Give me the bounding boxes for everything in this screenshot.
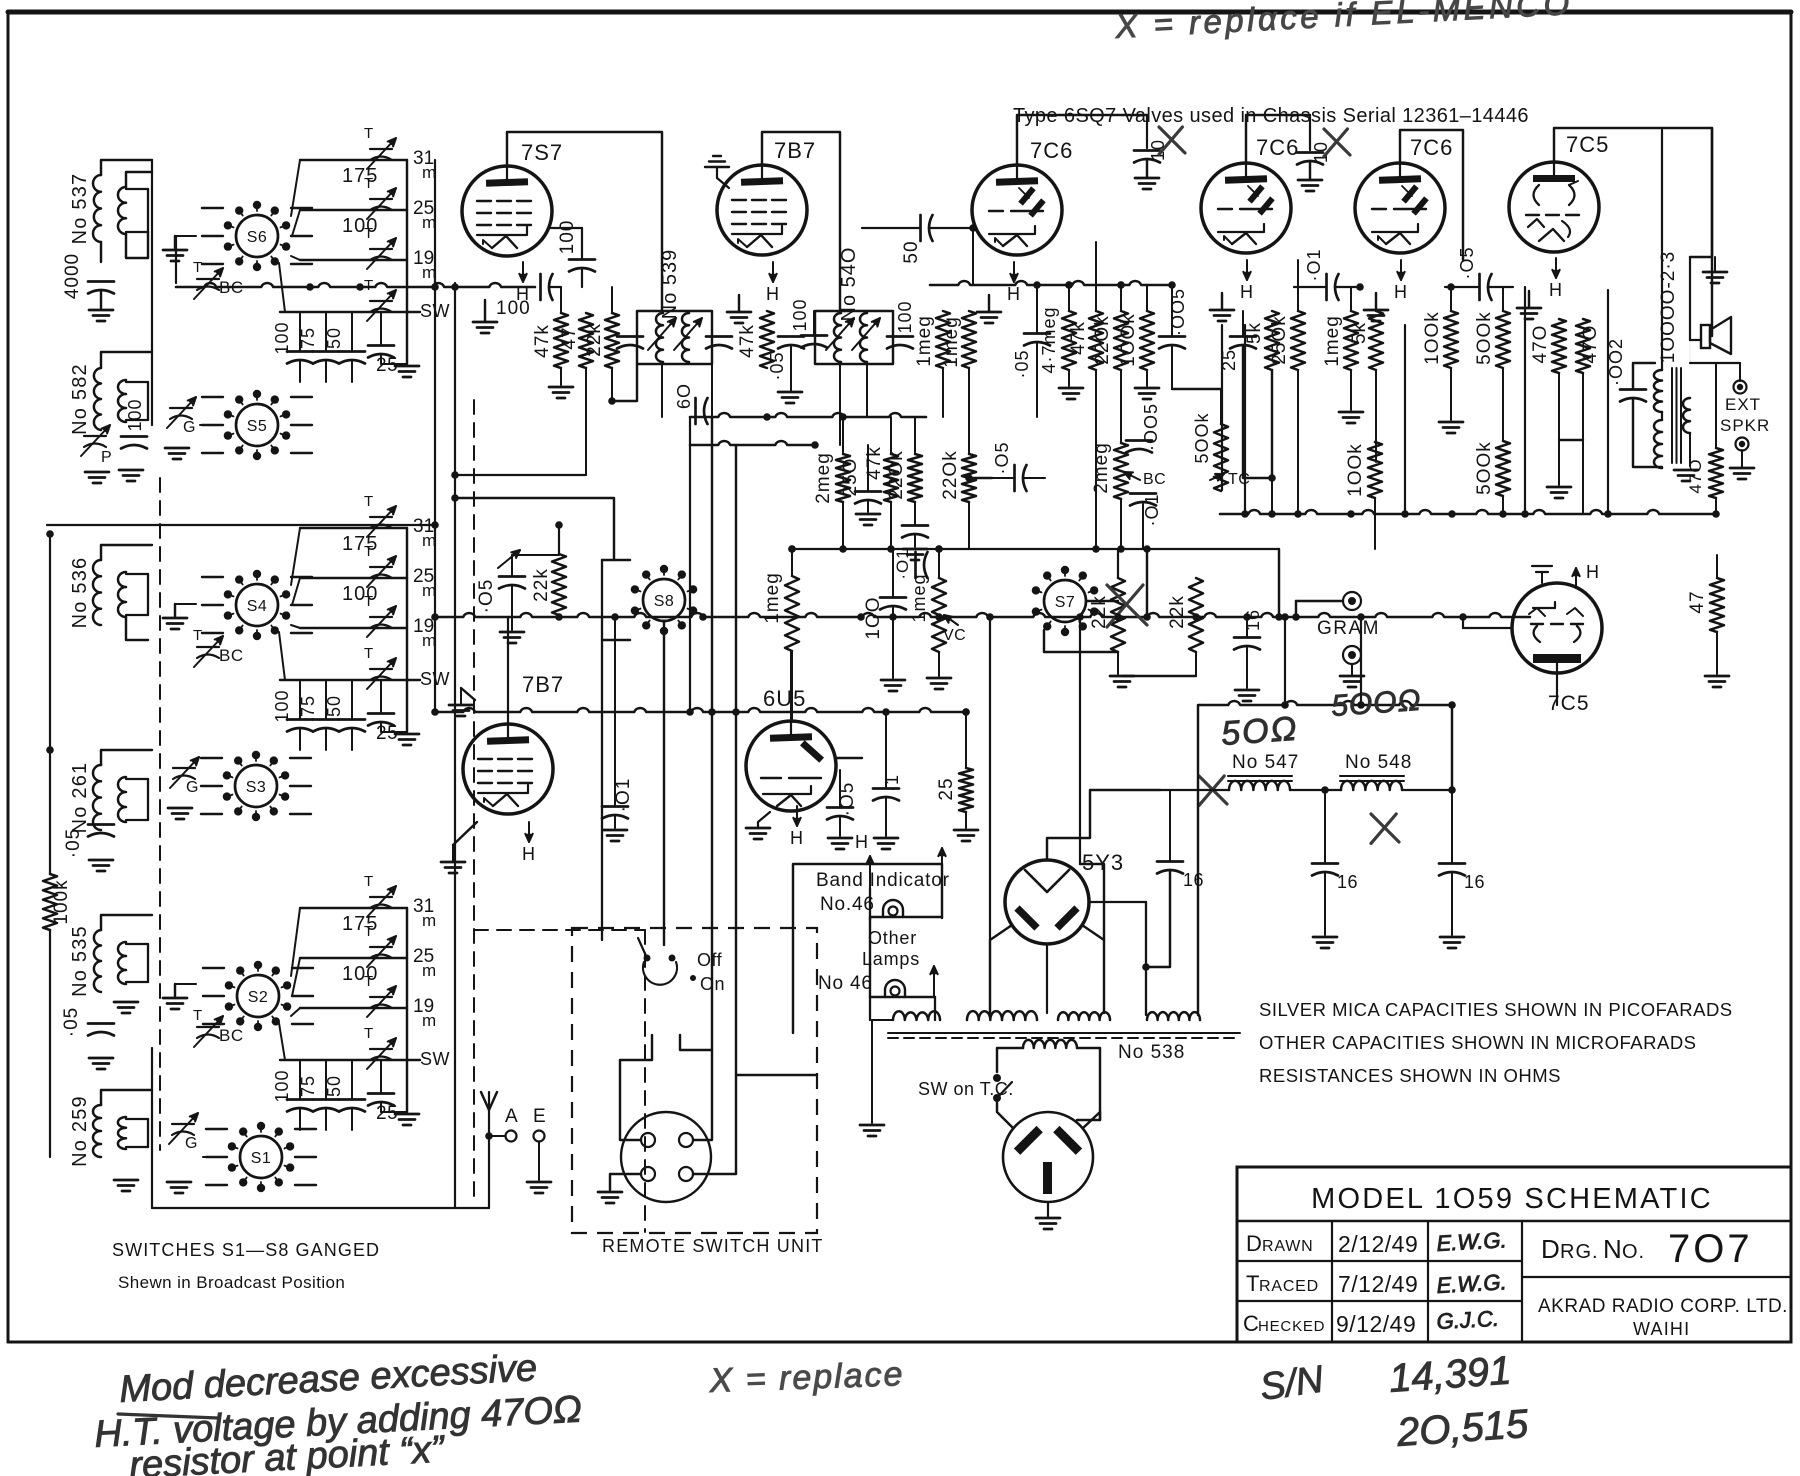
svg-text:25Ok: 25Ok (1269, 315, 1290, 364)
svg-text:BC: BC (1143, 471, 1166, 488)
ground (89, 859, 113, 862)
bus y525 left (47, 524, 435, 526)
heater H (1400, 260, 1402, 280)
wire x1080 (1079, 617, 1081, 864)
ground (89, 309, 113, 312)
wire 6U5 target (790, 651, 792, 721)
svg-text:100k: 100k (51, 879, 72, 924)
svg-text:H: H (855, 832, 868, 852)
svg-text:SPKR: SPKR (1720, 416, 1770, 435)
wire chokes (1290, 789, 1341, 791)
resistor 1meg center (785, 576, 799, 651)
capacitor IFT2 right (887, 335, 913, 338)
svg-text:6O: 6O (674, 383, 694, 409)
svg-text:A: A (505, 1106, 518, 1127)
svg-text:4000: 4000 (62, 253, 83, 299)
jack EXT SPKR top (1734, 381, 1747, 394)
capacitor 10 b with X (1309, 115, 1311, 150)
lamp No46 b (885, 980, 905, 997)
svg-text:16: 16 (1183, 870, 1204, 890)
wire y549 corner (1278, 549, 1280, 617)
ground cathode (1364, 309, 1388, 312)
arrow BC (1124, 472, 1140, 480)
wire .01 down (1142, 504, 1144, 549)
tube 7S7 (462, 166, 552, 256)
ground (1705, 675, 1729, 678)
heater H riser (869, 856, 871, 888)
svg-text:G: G (185, 1135, 197, 1152)
tube 7B7 second (463, 724, 553, 814)
svg-text:GRAM: GRAM (1317, 618, 1380, 639)
tube 7C6 first (972, 165, 1062, 255)
trimmer BC b3 (197, 1026, 219, 1028)
handwriting X choke b (1371, 814, 1399, 842)
wire bank582 top (101, 352, 152, 368)
svg-text:D: D (1246, 1231, 1263, 1256)
ground 6U5 cathode (746, 827, 770, 830)
svg-text:22Ok: 22Ok (1092, 315, 1113, 364)
svg-text:G: G (183, 419, 195, 436)
ground 7S7 cathode (473, 321, 497, 324)
switch S1 (240, 1136, 282, 1178)
svg-text:22k: 22k (531, 568, 552, 602)
svg-text:50: 50 (901, 240, 922, 263)
svg-text:7S7: 7S7 (521, 140, 563, 165)
junction dots bus y283 (306, 283, 314, 291)
wire bank535 top (101, 915, 152, 930)
svg-text:S8: S8 (654, 593, 675, 610)
resistor 47k c (884, 454, 898, 502)
IF transformer No539 (637, 311, 712, 364)
svg-text:AKRAD RADIO CORP. LTD.: AKRAD RADIO CORP. LTD. (1538, 1296, 1788, 1317)
svg-text:T: T (364, 593, 373, 610)
wire S8 to bus (663, 621, 665, 945)
resistor 470 spkr (1709, 448, 1723, 498)
svg-text:25O: 25O (840, 458, 861, 497)
svg-text:No 537: No 537 (69, 173, 91, 245)
wire switch contacts (203, 967, 224, 969)
svg-text:T: T (364, 493, 373, 510)
wire switch contacts (201, 757, 222, 759)
wire rail x435 (434, 160, 436, 712)
resistor 2meg bc (1114, 443, 1128, 499)
svg-text:No 548: No 548 (1345, 752, 1412, 773)
ground secondary (1674, 469, 1698, 472)
ground BC b3 (163, 997, 187, 1000)
wire 7C5b (1556, 673, 1558, 705)
svg-text:7/12/49: 7/12/49 (1338, 1271, 1418, 1297)
resistor 100k (43, 874, 57, 930)
svg-text:m: m (422, 911, 436, 930)
transformer secondary winding (1683, 398, 1690, 433)
wire 5Y3 filament (1047, 790, 1160, 860)
tube 7C5 (1509, 162, 1599, 252)
svg-text:47k: 47k (532, 324, 553, 358)
svg-text:5k: 5k (1349, 322, 1370, 344)
junction dots y617 (611, 613, 619, 621)
svg-text:·O5: ·O5 (1457, 246, 1477, 279)
svg-text:·05: ·05 (63, 828, 84, 858)
svg-text:No 536: No 536 (69, 557, 91, 629)
wire remote 3 (610, 1174, 641, 1190)
wire 7C6b down (1221, 325, 1223, 490)
ground (1440, 936, 1464, 939)
heater H (1555, 258, 1557, 278)
svg-text:75: 75 (298, 1075, 318, 1097)
wire No 582 secondary loop (126, 381, 148, 383)
transformer core (1671, 368, 1673, 463)
switch S8 (643, 579, 685, 621)
capacitor 100 (121, 435, 147, 438)
wire long vertical x690 (689, 417, 691, 712)
ground (1547, 486, 1571, 489)
resistor 220k b (908, 454, 922, 502)
ground b1 (395, 365, 419, 368)
wire secondary down (126, 232, 148, 258)
ground 7B7 cathode (727, 311, 751, 314)
box band indicator (793, 864, 942, 1033)
switch S6 bank connectors (291, 160, 300, 216)
ground ext spkr (1730, 467, 1754, 470)
wire x1361 (1360, 617, 1362, 705)
trimmer T b3 (370, 946, 392, 948)
ground (603, 829, 627, 832)
svg-text:7C6: 7C6 (1410, 135, 1453, 160)
wire S7 contacts (1086, 600, 1118, 602)
svg-text:·O5: ·O5 (992, 441, 1012, 474)
capacitor .05 (88, 823, 114, 826)
bus y705 (1200, 701, 1452, 705)
capacitor mid (902, 524, 928, 527)
svg-text:T: T (364, 873, 373, 890)
ground (167, 1181, 191, 1184)
wire 7B7b plate (507, 617, 509, 724)
wire No537 left (100, 242, 102, 262)
tube 7C6 third (1355, 163, 1445, 253)
tube 7B7 first (717, 165, 807, 255)
svg-text:Type 6SQ7 Valves used in Chass: Type 6SQ7 Valves used in Chassis Serial … (1013, 105, 1529, 127)
svg-text:1meg: 1meg (909, 573, 929, 622)
svg-text:No 259: No 259 (69, 1095, 91, 1167)
wire rail b1 (406, 160, 408, 364)
ground (881, 679, 905, 682)
svg-text:WAIHI: WAIHI (1633, 1319, 1690, 1339)
jack GRAM top (1343, 592, 1361, 610)
svg-text:RESISTANCES SHOWN IN OHMS: RESISTANCES SHOWN IN OHMS (1259, 1065, 1561, 1086)
junction dots buses (763, 413, 771, 421)
wire plate (1246, 115, 1310, 163)
svg-text:100: 100 (272, 321, 292, 354)
svg-text:No.46: No.46 (820, 894, 875, 915)
svg-text:7C6: 7C6 (1030, 138, 1073, 163)
svg-text:22k: 22k (1167, 595, 1188, 629)
ground (1135, 177, 1159, 180)
svg-text:·05: ·05 (1012, 349, 1032, 378)
ground 7C6 cathode (977, 311, 1001, 314)
title block frame (1237, 1167, 1791, 1342)
wire No 537 secondary loop (126, 188, 148, 190)
wire transformer ends (872, 1019, 893, 1021)
svg-text:1OOk: 1OOk (1118, 313, 1139, 367)
svg-text:·05: ·05 (767, 351, 787, 380)
svg-text:6U5: 6U5 (763, 686, 806, 711)
capacitor .01 b (602, 805, 628, 808)
wire speaker feed (1689, 257, 1691, 340)
wire (126, 617, 148, 640)
svg-text:S2: S2 (248, 989, 269, 1006)
svg-text:1meg: 1meg (1322, 315, 1343, 367)
svg-text:S/N: S/N (1257, 1358, 1326, 1408)
coil No 537 secondary (118, 187, 126, 234)
coil No 259 secondary (118, 1117, 126, 1149)
wire switch contacts (202, 207, 223, 209)
heater H 7B7b (528, 822, 530, 842)
svg-text:H: H (1240, 282, 1253, 302)
wire y549 (792, 548, 1279, 550)
trimmer T SW b1 (370, 300, 392, 302)
wire transformer risers (1089, 901, 1146, 903)
ground (1340, 675, 1364, 678)
svg-text:No 261: No 261 (69, 762, 91, 834)
svg-text:T: T (364, 923, 373, 940)
svg-text:4·7meg: 4·7meg (1039, 306, 1059, 373)
power plug (1003, 1112, 1093, 1202)
heater H 6U5 (796, 806, 798, 826)
capacitor 7C5b (1532, 565, 1552, 567)
svg-text:7B7: 7B7 (522, 672, 564, 697)
ground (500, 631, 524, 634)
svg-text:2O,515: 2O,515 (1395, 1402, 1531, 1455)
svg-text:47k: 47k (1068, 321, 1089, 355)
svg-text:MODEL 1O59 SCHEMATIC: MODEL 1O59 SCHEMATIC (1311, 1183, 1713, 1215)
resistor 5k (1265, 311, 1279, 370)
wire No 535 secondary loop (126, 943, 148, 945)
svg-text:BC: BC (219, 646, 244, 665)
svg-text:S4: S4 (247, 598, 268, 615)
svg-text:OTHER CAPACITIES SHOWN IN: OTHER CAPACITIES SHOWN IN MICROFARADS (1259, 1032, 1697, 1053)
svg-text:5OOk: 5OOk (1474, 311, 1495, 365)
transformer core (888, 1032, 1240, 1034)
ground (927, 677, 951, 680)
ground (828, 837, 852, 840)
arrow lamp string (933, 966, 935, 997)
antenna (488, 1110, 490, 1208)
resistor 47k 7B7 (760, 311, 774, 368)
capacitor 4000 (88, 280, 114, 283)
ground HT (1703, 271, 1727, 274)
svg-text:1OOk: 1OOk (1345, 443, 1366, 497)
svg-text:10: 10 (1148, 139, 1168, 161)
coil No 535 secondary (118, 942, 126, 984)
capacitor 100 cathode (539, 274, 542, 300)
resistor 25 (959, 768, 973, 812)
svg-text:Lamps: Lamps (862, 949, 920, 969)
capacitor 25 (1230, 335, 1256, 338)
svg-text:SILVER MICA CAPACITIES SHOWN I: SILVER MICA CAPACITIES SHOWN IN PICOFARA… (1259, 999, 1733, 1020)
ground (860, 1124, 884, 1127)
capacitor .05 d (827, 806, 853, 809)
wire 7S7 plate (507, 132, 662, 311)
capacitor 00 60pf (694, 398, 697, 424)
capacitor 25 b2 (368, 712, 394, 715)
jack GRAM bottom (1343, 646, 1361, 664)
wire vertical x176 (175, 236, 177, 283)
transformer primary coils (893, 1011, 940, 1020)
switch S7 (1044, 580, 1086, 622)
wire bank259 top (101, 1090, 152, 1105)
svg-text:No 46: No 46 (818, 973, 873, 994)
potentiometer 1meg VC (932, 578, 946, 652)
svg-text:100: 100 (496, 298, 531, 319)
wire S5 group (200, 424, 222, 426)
svg-text:50: 50 (324, 327, 344, 349)
wire row b2 (300, 527, 407, 529)
ground BC b1 (163, 249, 187, 252)
wire remote 4 (693, 1075, 817, 1174)
svg-text:22k: 22k (584, 323, 605, 357)
capacitor .005 b (1126, 439, 1152, 442)
svg-text:No 535: No 535 (69, 925, 91, 997)
wire long vertical x736 (735, 445, 737, 1075)
trimmer BC b1 (197, 278, 219, 280)
svg-text:100: 100 (272, 1069, 292, 1102)
capacitor .05 coupling (1478, 274, 1481, 300)
trimmer T b1 (370, 248, 392, 250)
wire rail b3 (406, 908, 408, 1112)
svg-text:2meg: 2meg (813, 452, 834, 504)
capacitor .05 (88, 1022, 114, 1025)
svg-text:m: m (422, 961, 436, 980)
trimmer T b3 (370, 996, 392, 998)
svg-text:P: P (101, 449, 112, 466)
wire remote 1 (620, 1035, 652, 1140)
padder caps 100 75 50 b1 (287, 350, 313, 353)
svg-text:47O: 47O (1686, 458, 1705, 493)
resistor 22k S7 b (1189, 578, 1203, 652)
svg-text:S3: S3 (246, 779, 267, 796)
wire 6U5 grid (836, 757, 862, 759)
wire row b3 (300, 907, 407, 909)
ground (1135, 387, 1159, 390)
bus y617 (435, 613, 1530, 617)
wire left rail (49, 534, 51, 874)
capacitor 250 (855, 490, 881, 493)
ground cathode (1210, 309, 1234, 312)
wire plate (1554, 128, 1712, 336)
svg-text:H: H (1586, 562, 1599, 582)
wire 5Y3 anodes (990, 925, 1012, 1013)
svg-text:No 582: No 582 (69, 363, 91, 435)
capacitor 16 S7 (1234, 636, 1260, 639)
heater H 7C6 (1013, 262, 1015, 282)
ground (119, 469, 143, 472)
capacitor .05 S4 cluster (499, 575, 525, 578)
resistor 500k b (1496, 441, 1510, 496)
svg-text:T: T (193, 1007, 202, 1024)
wire avc feed y498 (455, 498, 614, 560)
resistor 470 (1552, 319, 1566, 373)
box other lamps (870, 917, 942, 997)
wire lamps to transformer (869, 997, 871, 1020)
resistor 100k (1140, 311, 1154, 370)
wire row b3 (300, 957, 407, 959)
svg-text:16: 16 (1464, 872, 1485, 892)
svg-text:·O1: ·O1 (1304, 248, 1324, 281)
remote plug (621, 1112, 711, 1202)
svg-text:16: 16 (1337, 872, 1358, 892)
wire row b3 (300, 1007, 407, 1009)
svg-text:T: T (364, 225, 373, 242)
wire SW row b2 (280, 679, 420, 681)
svg-text:1meg: 1meg (762, 572, 783, 624)
svg-text:E.W.G.: E.W.G. (1436, 1227, 1507, 1256)
svg-text:1OO: 1OO (863, 596, 884, 639)
svg-text:100: 100 (557, 220, 578, 255)
coil No 261 secondary (118, 777, 126, 822)
svg-text:100: 100 (125, 398, 145, 431)
trimmer BC b2 (197, 646, 219, 648)
junction dots y705 (1448, 701, 1456, 709)
svg-text:·OO5: ·OO5 (1141, 403, 1161, 451)
ground (874, 837, 898, 840)
wire ext spkr (1690, 362, 1740, 364)
capacitor 10 with X (1146, 115, 1148, 148)
capacitor .05 avc (1024, 332, 1050, 335)
capacitor .05 (778, 335, 804, 338)
junction dots y516 (1241, 510, 1249, 518)
svg-text:47: 47 (559, 326, 580, 349)
trimmer T SW b2 (370, 668, 392, 670)
jack E (534, 1131, 545, 1142)
switch S5 (236, 404, 278, 446)
svg-text:No 547: No 547 (1232, 752, 1299, 773)
capacitor 16 a (1312, 862, 1338, 865)
wire x1147 lower (1146, 549, 1148, 617)
svg-text:100: 100 (790, 298, 810, 331)
svg-text:22Ok: 22Ok (886, 450, 907, 499)
svg-text:Shewn in Broadcast Position: Shewn in Broadcast Position (118, 1273, 345, 1292)
svg-text:2meg: 2meg (1091, 442, 1112, 494)
trimmer T b2 (370, 516, 392, 518)
svg-text:5OOk: 5OOk (1192, 412, 1212, 463)
gang dashed line left (159, 478, 161, 1150)
ground b3 (395, 1113, 419, 1116)
resistor 47k b (1089, 311, 1103, 370)
svg-text:T: T (193, 259, 202, 276)
svg-text:T: T (364, 175, 373, 192)
ground (856, 513, 880, 516)
wire bank261 top (101, 750, 152, 765)
capacitor .01 coupling (1325, 274, 1328, 300)
switch S6 (236, 215, 278, 257)
svg-text:RACED: RACED (1259, 1278, 1319, 1295)
junction dots y549 (788, 545, 796, 553)
svg-text:E: E (533, 1106, 546, 1127)
ground BC b2 (163, 617, 187, 620)
remote switch box dashed (572, 928, 817, 1233)
wire rail b2 (406, 528, 408, 732)
heater H 7B7 (772, 262, 774, 282)
svg-text:47: 47 (1687, 590, 1708, 613)
svg-text:·O5: ·O5 (476, 579, 497, 614)
svg-text:H: H (1394, 282, 1407, 302)
wire 7C6 plate (1017, 115, 1147, 165)
resistor 1meg b (962, 311, 976, 368)
resistor 100k mid (1368, 442, 1382, 498)
wire S1 group (203, 1156, 227, 1158)
trimmer T SW b3 (370, 1048, 392, 1050)
wire row b2 (300, 577, 407, 579)
